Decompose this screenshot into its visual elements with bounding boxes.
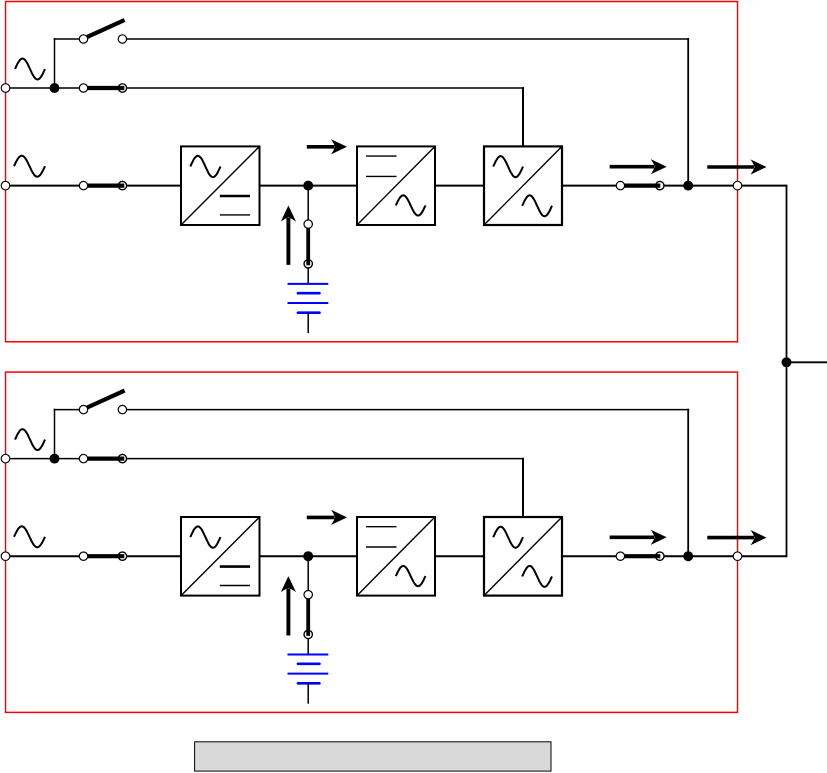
- node: output port (unit 1): [733, 181, 742, 190]
- node: bypass input port (unit 2): [1, 454, 10, 463]
- inverter block (DC/AC converter) (unit 2): [357, 517, 435, 596]
- node: output port (unit 2): [733, 552, 742, 561]
- battery (energy storage) (unit 2): [288, 655, 329, 684]
- wire: static switch to output port (unit 2): [562, 555, 738, 557]
- arrow: power flow rectifier to inverter (unit 1): [307, 139, 347, 154]
- wire: maintenance bypass switch to output drop (unit 2): [122, 409, 689, 411]
- node: bypass input port (unit 1): [1, 84, 10, 93]
- wire: DC junction to battery switch (unit 2): [307, 556, 309, 595]
- static bypass switch block (AC/AC) (unit 2): [484, 517, 562, 596]
- AC mains source symbol (unit 2): [14, 526, 45, 547]
- wire: main input port to rectifier (unit 1): [6, 185, 182, 187]
- wire: unit 1 output down to parallel bus node: [786, 186, 788, 363]
- UPS unit 1 cabinet enclosure: [6, 2, 738, 342]
- wire: static switch to output port (unit 1): [562, 185, 738, 187]
- node: main input port (unit 1): [1, 181, 10, 190]
- wire: rectifier to inverter (DC bus) (unit 1): [260, 185, 358, 187]
- arrow: battery charge/discharge flow (unit 2): [281, 576, 296, 635]
- wire: maintenance bypass drop to output junction (unit 2): [687, 409, 689, 557]
- wire: bypass junction riser (unit 1): [54, 38, 56, 88]
- arrow: UPS output power flow (unit 2): [610, 530, 667, 545]
- node: bypass junction (unit 1): [50, 83, 60, 93]
- node: output junction (bypass tie-in) (unit 1): [683, 181, 693, 191]
- wire: inverter to static switch (unit 1): [435, 185, 484, 187]
- node: main input port (unit 2): [1, 552, 10, 561]
- AC bypass source symbol (unit 2): [15, 429, 45, 450]
- static bypass switch block (AC/AC) (unit 1): [484, 146, 562, 225]
- wire: drop into static switch top (unit 1): [522, 87, 524, 146]
- caption placeholder box: [195, 742, 551, 771]
- wire: bypass input port to bypass junction (unit 2): [6, 458, 55, 460]
- wire: battery switch to battery (unit 2): [307, 638, 309, 653]
- rectifier block (AC/DC converter) (unit 2): [181, 517, 260, 596]
- wire: bypass junction riser (unit 2): [54, 409, 56, 459]
- wire: riser to maintenance bypass switch (unit 1): [54, 38, 84, 40]
- wire: maintenance bypass drop to output junction (unit 1): [687, 38, 689, 186]
- node: DC bus / battery junction (unit 2): [303, 551, 313, 561]
- wire: bypass junction to static-switch drop (unit 1): [55, 87, 524, 89]
- node: DC bus / battery junction (unit 1): [303, 181, 313, 191]
- output isolation switch (closed) (unit 2): [616, 552, 664, 560]
- wire: main input port to rectifier (unit 2): [6, 555, 182, 557]
- node: bypass junction (unit 2): [50, 454, 60, 464]
- inverter block (DC/AC converter) (unit 1): [357, 146, 435, 225]
- wire: riser to maintenance bypass switch (unit 2): [54, 409, 84, 411]
- wire: battery switch to battery (unit 1): [307, 268, 309, 283]
- wire: drop into static switch top (unit 2): [522, 458, 524, 517]
- wire: battery tail (unit 1): [307, 313, 309, 333]
- arrow: power flow rectifier to inverter (unit 2): [307, 510, 347, 525]
- arrow: output to parallel bus (unit 1): [707, 159, 766, 174]
- battery isolation switch (closed, vertical) (unit 2): [304, 591, 312, 639]
- maintenance bypass switch (open) (unit 1): [79, 20, 126, 43]
- input isolation switch (closed) (unit 2): [79, 552, 126, 560]
- wire: maintenance bypass switch to output drop (unit 1): [122, 38, 689, 40]
- wire: output port to parallel bus (unit 2): [738, 555, 788, 557]
- arrow: output to parallel bus (unit 2): [707, 530, 766, 545]
- wire: output port to parallel bus (unit 1): [738, 185, 788, 187]
- node: output junction (bypass tie-in) (unit 2): [683, 551, 693, 561]
- bypass isolation switch (closed) (unit 2): [79, 454, 126, 462]
- rectifier block (AC/DC converter) (unit 1): [181, 146, 260, 225]
- arrow: UPS output power flow (unit 1): [610, 159, 667, 174]
- wire: bypass junction to static-switch drop (unit 2): [55, 458, 524, 460]
- input isolation switch (closed) (unit 1): [79, 181, 126, 189]
- wire: DC junction to battery switch (unit 1): [307, 186, 309, 225]
- wire: battery tail (unit 2): [307, 683, 309, 703]
- wire: rectifier to inverter (DC bus) (unit 2): [260, 555, 358, 557]
- battery (energy storage) (unit 1): [288, 284, 329, 313]
- bypass isolation switch (closed) (unit 1): [79, 84, 126, 92]
- maintenance bypass switch (open) (unit 2): [79, 391, 126, 414]
- output isolation switch (closed) (unit 1): [616, 181, 664, 189]
- UPS unit 2 cabinet enclosure: [6, 372, 738, 712]
- arrow: battery charge/discharge flow (unit 1): [281, 206, 296, 265]
- node: parallel bus tie point: [782, 357, 792, 367]
- battery isolation switch (closed, vertical) (unit 1): [304, 220, 312, 268]
- wire: inverter to static switch (unit 2): [435, 555, 484, 557]
- wire: parallel bus node down to unit 2 output: [786, 362, 788, 556]
- wire: parallel bus to load: [787, 361, 827, 363]
- wire: bypass input port to bypass junction (unit 1): [6, 87, 55, 89]
- AC mains source symbol (unit 1): [14, 156, 45, 177]
- AC bypass source symbol (unit 1): [15, 59, 45, 80]
